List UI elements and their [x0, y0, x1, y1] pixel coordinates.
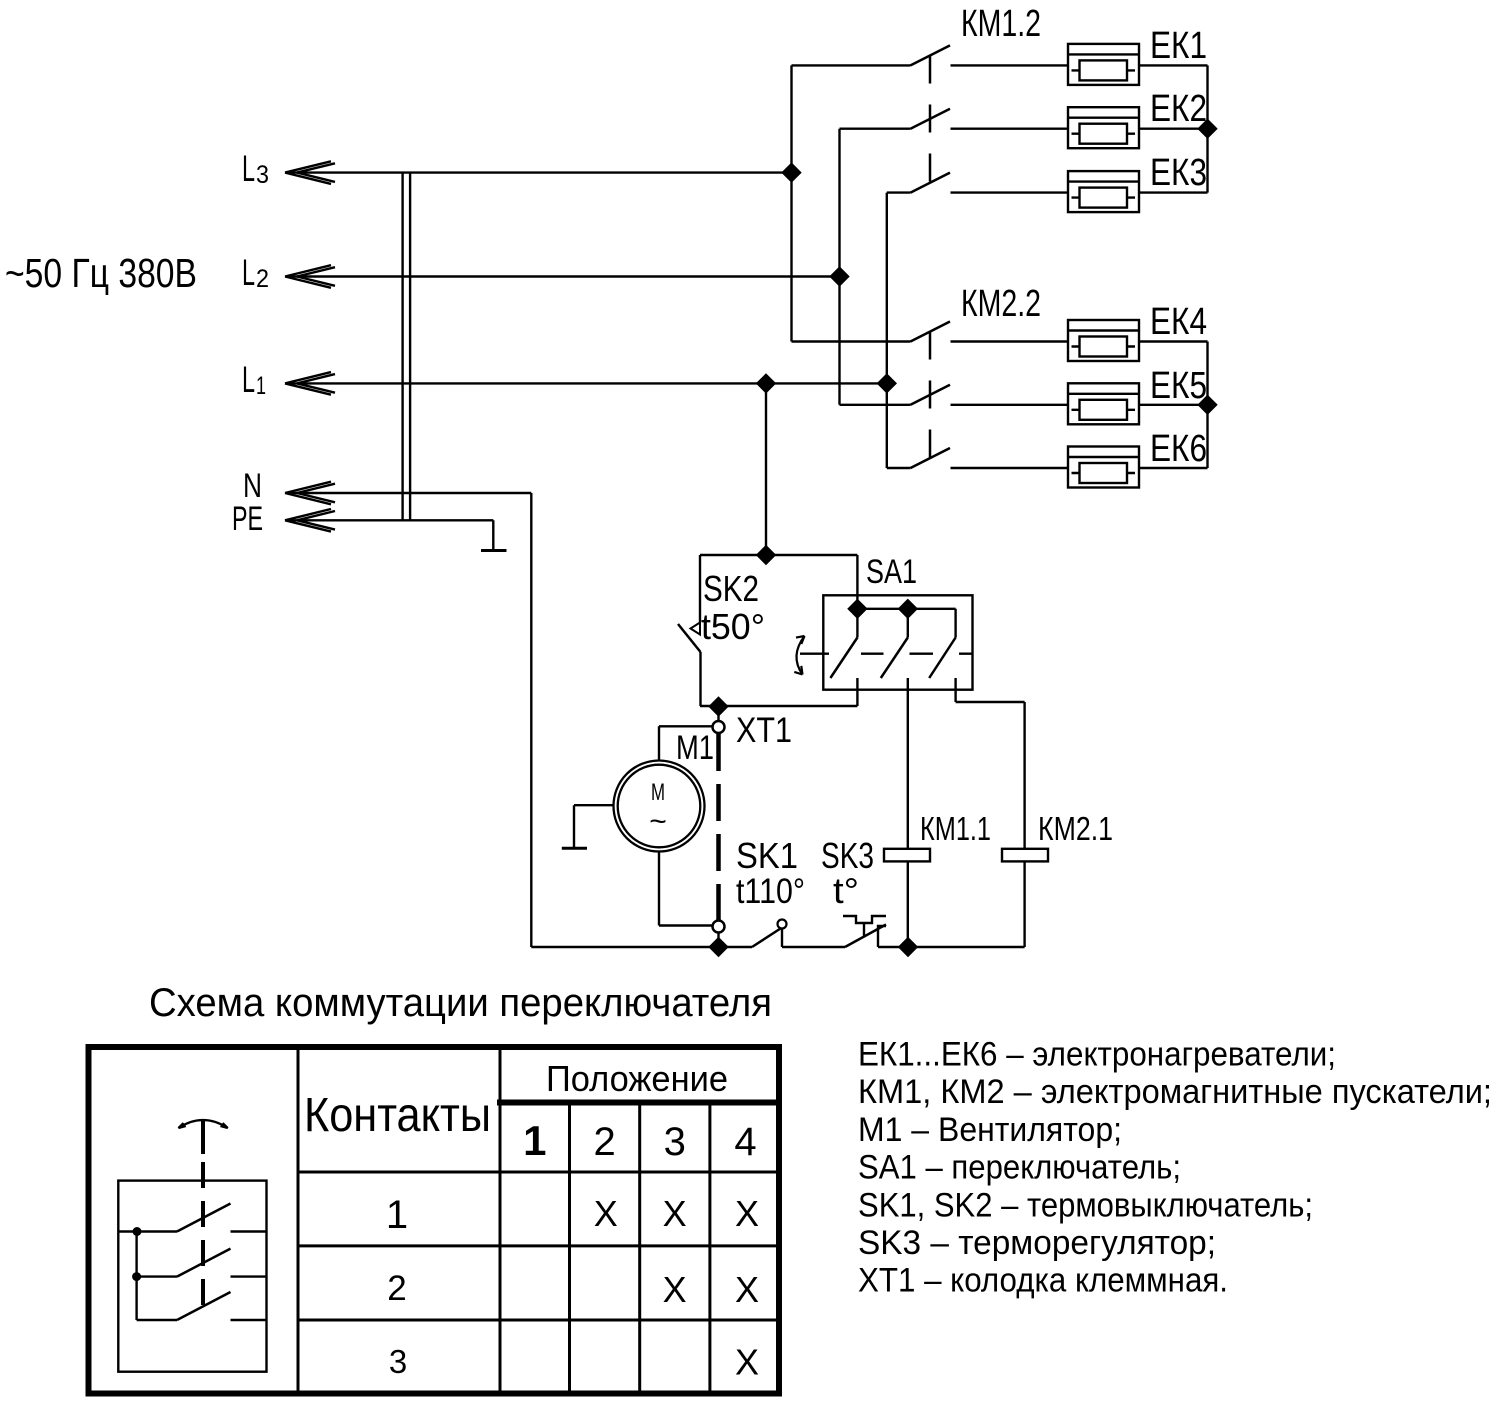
node junction top run — [758, 547, 775, 564]
svg-text:3: 3 — [389, 1343, 407, 1380]
svg-text:Х: Х — [735, 1193, 759, 1234]
wire EK6 to bus — [1139, 467, 1208, 469]
wire SA1 top bus — [857, 609, 955, 638]
wire bottom run right — [878, 946, 1025, 948]
wire bottom run left — [531, 946, 752, 948]
svg-text:~50 Гц 380В: ~50 Гц 380В — [5, 250, 197, 296]
svg-text:4: 4 — [734, 1120, 756, 1164]
switch diagram lever — [201, 1119, 205, 1154]
svg-text:L: L — [242, 359, 255, 400]
node dot 1 — [133, 1227, 142, 1236]
switch SA1 box — [823, 595, 972, 689]
contact KM1.2 pole 3 — [887, 173, 1068, 193]
switch diagram box — [118, 1181, 266, 1372]
switch diagram contact 2 — [137, 1249, 267, 1277]
svg-text:t50°: t50° — [701, 606, 765, 647]
svg-text:Х: Х — [594, 1193, 618, 1234]
svg-text:КМ2.2: КМ2.2 — [961, 283, 1041, 325]
svg-text:L: L — [242, 252, 255, 293]
wire bus EK1-EK3 — [1206, 65, 1208, 192]
svg-text:КМ1, КМ2 – электромагнитные: КМ1, КМ2 – электромагнитные пускатели; — [858, 1073, 1492, 1111]
lever SA1 rotation arrow — [794, 636, 804, 675]
contact KM2.2 pole 2 — [840, 385, 1069, 405]
linkage KM2.2 dashed — [929, 332, 932, 460]
svg-text:Положение: Положение — [546, 1058, 728, 1099]
switch diagram branch wire — [135, 1232, 137, 1321]
svg-text:~: ~ — [649, 805, 667, 838]
svg-text:КМ2.1: КМ2.1 — [1038, 810, 1113, 847]
svg-text:L: L — [242, 148, 255, 189]
wire L2 — [286, 275, 840, 277]
heater EK2 — [1068, 107, 1139, 148]
wire bottom run middle — [782, 946, 845, 948]
svg-text:XT1: XT1 — [736, 711, 792, 750]
wire N vertical down to control circuit — [530, 493, 532, 947]
svg-text:1: 1 — [386, 1193, 408, 1237]
switch diagram rotation arc arrow — [178, 1120, 227, 1128]
svg-text:Х: Х — [663, 1269, 687, 1310]
svg-text:ЕК4: ЕК4 — [1150, 301, 1207, 343]
node junction SA1 pole1 top — [849, 600, 866, 617]
wire EK4 to bus — [1139, 340, 1208, 342]
terminal block XT1 — [710, 698, 727, 956]
contact KM1.2 pole 1 — [792, 45, 1069, 65]
node junction L3 — [783, 164, 800, 181]
wire SA1 entry — [856, 555, 858, 609]
svg-text:Х: Х — [735, 1269, 759, 1310]
svg-text:КМ1.1: КМ1.1 — [920, 810, 991, 847]
svg-text:ЕК3: ЕК3 — [1150, 152, 1207, 194]
table outer border — [89, 1047, 780, 1394]
motor M1 — [614, 761, 705, 852]
svg-text:2: 2 — [593, 1120, 615, 1164]
svg-text:М1 – Вентилятор;: М1 – Вентилятор; — [858, 1111, 1122, 1149]
contact SA1 pole 1 — [830, 609, 857, 706]
heater EK1 — [1068, 44, 1139, 85]
node junction L1 to SA1 — [758, 375, 775, 392]
contact SA1 pole 3 — [929, 638, 955, 703]
svg-text:t°: t° — [833, 870, 859, 911]
thermal switch SK2 — [678, 555, 701, 706]
contact KM1.2 pole 2 — [840, 109, 1069, 129]
heater EK3 — [1068, 171, 1139, 212]
wire EK2 to bus — [1139, 127, 1208, 129]
svg-text:2: 2 — [256, 265, 269, 293]
wire PE — [286, 520, 493, 549]
svg-text:SK1: SK1 — [736, 835, 798, 876]
node junction KM1.1 bottom — [900, 939, 917, 956]
wire feed vertical from L3 — [790, 65, 792, 341]
coil KM1.1 — [884, 849, 930, 947]
wire top run SK2/SA1 — [700, 554, 857, 556]
svg-text:КМ1.2: КМ1.2 — [961, 3, 1041, 45]
svg-text:2: 2 — [387, 1269, 406, 1308]
svg-text:Х: Х — [663, 1193, 687, 1234]
svg-text:Контакты: Контакты — [304, 1089, 491, 1142]
svg-text:3: 3 — [664, 1120, 686, 1164]
wire EK3 to bus — [1139, 191, 1208, 193]
node junction EK5 bus — [1199, 396, 1216, 413]
svg-text:SK2: SK2 — [703, 568, 759, 609]
arrow N — [285, 482, 335, 505]
wire N horizontal — [286, 492, 531, 494]
arrow L1 — [285, 372, 335, 395]
svg-text:M1: M1 — [676, 729, 714, 767]
svg-text:t110°: t110° — [736, 872, 805, 911]
coil KM2.1 — [1002, 849, 1048, 947]
switch diagram contact 3 — [137, 1292, 267, 1320]
wire feed vertical from L1 — [886, 193, 888, 468]
svg-text:ЕК1: ЕК1 — [1150, 25, 1207, 67]
svg-text:SK1, SK2 – термовыключатель;: SK1, SK2 – термовыключатель; — [858, 1186, 1313, 1224]
wire motor bottom to XT1 — [659, 852, 713, 926]
table thick line under Polozhenie — [497, 1100, 782, 1106]
svg-text:PE: PE — [232, 500, 263, 538]
table verticals position columns — [570, 1103, 710, 1394]
cable harness double line — [403, 173, 411, 521]
wire EK5 to bus — [1139, 404, 1208, 406]
table row lines — [298, 1172, 782, 1320]
svg-text:SA1 – переключатель;: SA1 – переключатель; — [858, 1149, 1181, 1187]
svg-text:SA1: SA1 — [866, 553, 917, 591]
wire motor top to XT1 — [659, 726, 713, 760]
thermostat SK3 — [843, 916, 886, 947]
svg-text:SK3 – терморегулятор;: SK3 – терморегулятор; — [858, 1224, 1216, 1262]
svg-text:Схема коммутации переключателя: Схема коммутации переключателя — [149, 981, 772, 1025]
arrow L3 — [285, 161, 335, 184]
wire from L1 down to SK2/SA1 — [765, 383, 767, 555]
arrow PE — [285, 509, 335, 532]
wire feed vertical from L2 — [838, 129, 840, 405]
node junction L2 — [831, 268, 848, 285]
node junction L1 to KM poles — [878, 375, 895, 392]
svg-text:ЕК5: ЕК5 — [1150, 365, 1207, 407]
heater EK5 — [1068, 383, 1139, 424]
contact SA1 pole 2 — [881, 609, 908, 849]
contact KM2.2 pole 3 — [887, 448, 1068, 468]
svg-text:3: 3 — [256, 161, 269, 189]
switch diagram contact 1 — [118, 1204, 266, 1232]
wire L3 — [286, 171, 792, 173]
wire EK1 to bus — [1139, 64, 1208, 66]
wire L1 — [286, 382, 887, 384]
heater EK4 — [1068, 320, 1139, 361]
contact KM2.2 pole 1 — [792, 322, 1069, 342]
node dot 2 — [132, 1272, 141, 1281]
svg-text:ХТ1 – колодка клеммная.: ХТ1 – колодка клеммная. — [858, 1262, 1228, 1300]
svg-text:1: 1 — [523, 1117, 546, 1164]
linkage SA1 dashed bar — [800, 653, 973, 655]
node junction SA1 pole2 top — [899, 600, 916, 617]
svg-text:M: M — [651, 779, 665, 806]
thermal switch SK1 — [752, 920, 787, 948]
switch diagram linkage dashed — [201, 1162, 205, 1305]
svg-text:ЕК6: ЕК6 — [1150, 428, 1207, 470]
heater EK6 — [1068, 447, 1139, 488]
svg-text:ЕК2: ЕК2 — [1150, 88, 1207, 130]
ground PE earth bar — [481, 549, 507, 552]
node junction EK2 bus — [1199, 120, 1216, 137]
svg-text:Х: Х — [735, 1342, 759, 1383]
linkage KM1.2 dashed — [929, 56, 932, 184]
wire bus EK4-EK6 — [1206, 342, 1208, 469]
wire SA1 pole3 to KM2.1 — [956, 702, 1025, 849]
wire bottom run SK2 to SA1 pole1 — [700, 705, 857, 707]
arrow L2 — [285, 265, 335, 288]
table vertical col2/positions — [499, 1044, 502, 1394]
ground motor earth — [562, 805, 614, 848]
table vertical col1/col2 — [297, 1044, 300, 1394]
svg-text:1: 1 — [256, 372, 266, 400]
svg-text:ЕК1...ЕК6 – электронагревате: ЕК1...ЕК6 – электронагреватели; — [858, 1036, 1336, 1074]
